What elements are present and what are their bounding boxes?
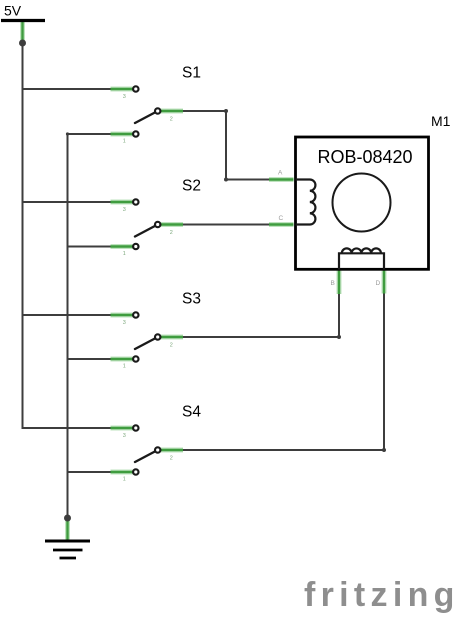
svg-text:3: 3 bbox=[123, 433, 126, 439]
svg-text:S1: S1 bbox=[182, 65, 201, 82]
svg-text:S2: S2 bbox=[182, 178, 201, 195]
svg-text:A: A bbox=[278, 170, 283, 177]
svg-text:1: 1 bbox=[123, 477, 126, 483]
svg-text:3: 3 bbox=[123, 207, 126, 213]
svg-text:2: 2 bbox=[170, 117, 173, 123]
svg-text:S4: S4 bbox=[182, 404, 201, 421]
svg-text:1: 1 bbox=[123, 251, 126, 257]
svg-text:3: 3 bbox=[123, 320, 126, 326]
svg-text:S3: S3 bbox=[182, 291, 201, 308]
svg-text:M1: M1 bbox=[431, 113, 451, 129]
svg-text:ROB-08420: ROB-08420 bbox=[317, 147, 412, 167]
svg-text:1: 1 bbox=[123, 364, 126, 370]
svg-text:1: 1 bbox=[123, 139, 126, 145]
svg-text:fritzing: fritzing bbox=[304, 576, 454, 614]
svg-text:D: D bbox=[376, 280, 381, 287]
svg-text:C: C bbox=[279, 215, 284, 222]
svg-text:B: B bbox=[331, 280, 335, 287]
svg-text:2: 2 bbox=[170, 343, 173, 349]
svg-text:2: 2 bbox=[170, 230, 173, 236]
svg-text:5V: 5V bbox=[4, 3, 22, 19]
svg-text:2: 2 bbox=[170, 456, 173, 462]
svg-text:3: 3 bbox=[123, 94, 126, 100]
